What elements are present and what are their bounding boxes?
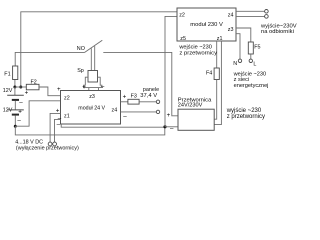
relay coil Sp — [88, 71, 98, 83]
relay Sp frame legs — [84, 77, 88, 87]
svg-text:24V/230V: 24V/230V — [178, 103, 203, 109]
node battery plus junction dots — [13, 86, 16, 89]
svg-text:z2: z2 — [64, 96, 70, 102]
svg-text:+: + — [56, 108, 60, 115]
svg-text:–: – — [123, 113, 127, 120]
svg-text:z3: z3 — [89, 94, 95, 100]
svg-text:–: – — [19, 99, 23, 106]
svg-text:37,4 V: 37,4 V — [140, 93, 157, 99]
wire between cells — [14, 101, 16, 110]
svg-text:+: + — [82, 84, 86, 91]
svg-text:N: N — [233, 61, 237, 67]
fuse F1 — [13, 66, 18, 80]
fuse F2 — [26, 84, 39, 90]
svg-text:z4: z4 — [228, 12, 234, 18]
wire z3 to F5 to L — [236, 28, 251, 42]
svg-text:z przetwornicy: z przetwornicy — [179, 51, 217, 57]
terminal odbiorniki 1 — [265, 10, 269, 14]
switch NO blade — [84, 40, 102, 52]
wire z1- to DC control circle — [55, 119, 61, 142]
svg-text:–: – — [170, 126, 174, 133]
fuse F3 — [128, 99, 139, 104]
svg-text:z3: z3 — [228, 27, 234, 33]
terminal panele + — [156, 100, 159, 103]
wire battery- to modul 24V z2- — [15, 101, 60, 126]
wire battery- bottom run to node A — [15, 126, 165, 135]
wire battery+ to F2 — [15, 86, 26, 88]
svg-text:z4: z4 — [112, 108, 118, 114]
svg-text:–: – — [17, 118, 21, 125]
node A junction dot — [163, 125, 166, 128]
fuse F4 — [214, 68, 219, 80]
svg-text:F3: F3 — [131, 94, 137, 100]
wire cell2 to bottom node — [14, 116, 16, 127]
svg-text:moduł 230 V: moduł 230 V — [190, 22, 223, 28]
svg-text:z1: z1 — [64, 113, 70, 119]
wire N input — [236, 34, 240, 59]
wire NO contact to przetwornica + — [103, 52, 178, 115]
svg-text:z1: z1 — [217, 36, 223, 42]
svg-text:+: + — [167, 112, 171, 119]
svg-text:Sp: Sp — [77, 68, 84, 74]
wire node A to przetwornica - — [165, 126, 178, 128]
terminal odbiorniki 2 — [265, 15, 269, 19]
wire z4- to panele — [121, 111, 157, 113]
wire z1b to przetwornica right lower — [214, 41, 221, 125]
svg-text:–: – — [101, 84, 105, 91]
svg-text:na odbiorniki: na odbiorniki — [261, 29, 294, 35]
svg-text:NO: NO — [77, 46, 85, 52]
svg-text:z2: z2 — [179, 12, 185, 18]
svg-text:+: + — [123, 93, 127, 100]
terminal panele - — [156, 110, 159, 113]
svg-text:moduł 24 V: moduł 24 V — [78, 105, 105, 111]
module box modul 230 V — [177, 8, 236, 41]
svg-text:z5: z5 — [180, 36, 186, 42]
wire modul 230V z2- down to node A — [165, 16, 177, 126]
svg-text:+: + — [18, 109, 22, 116]
svg-text:L: L — [253, 61, 256, 67]
node battery minus — [14, 125, 17, 128]
svg-text:z przetwornicy: z przetwornicy — [227, 114, 265, 120]
terminal N — [238, 59, 241, 62]
svg-text:+: + — [25, 90, 29, 97]
terminal L — [249, 59, 252, 62]
wire z4+ through F3 to panele — [121, 101, 128, 103]
svg-text:12V: 12V — [3, 88, 13, 94]
svg-text:F2: F2 — [31, 79, 37, 85]
svg-text:F4: F4 — [206, 70, 212, 76]
svg-text:–: – — [57, 121, 61, 128]
wire rail z3 — [83, 87, 103, 89]
svg-text:energetycznej: energetycznej — [234, 83, 269, 89]
wire z1 through F4 to przetwornica right — [216, 41, 218, 68]
svg-text:F1: F1 — [4, 71, 10, 77]
wire battery+ via F1 up to NO switch — [14, 80, 16, 88]
wire z4 outputs to odbiorniki terminals — [236, 10, 265, 12]
module box modul 24 V — [61, 91, 121, 125]
wire z1+ to DC control circle — [50, 113, 60, 142]
wire F2 to modul 24V z2+ — [39, 87, 61, 96]
fuse F5 — [248, 42, 253, 54]
relay Sp plunger linkage — [90, 48, 92, 70]
wire battery+ to modul 230V z2 (top long wire) — [21, 12, 177, 87]
svg-text:F5: F5 — [254, 44, 260, 50]
terminal circles 4..18V DC — [48, 142, 52, 146]
svg-text:(wyłączenie przetwornicy): (wyłączenie przetwornicy) — [16, 145, 79, 151]
wire modul 24V bottom stub to node A — [61, 124, 165, 127]
